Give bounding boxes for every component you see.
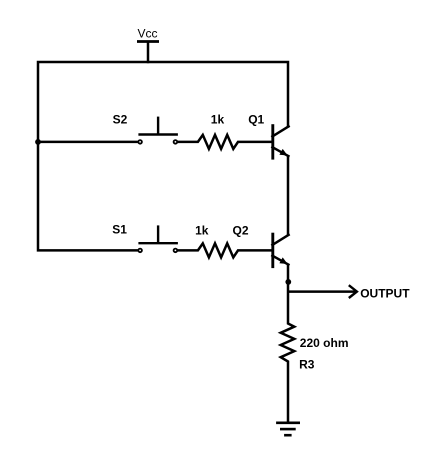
svg-text:S2: S2: [113, 113, 128, 127]
wire output horizontal: [288, 290, 356, 293]
wire S2 to R, resistor 1k (top), wire to Q1 base: [177, 135, 272, 149]
svg-text:1k: 1k: [195, 223, 209, 237]
svg-text:S1: S1: [112, 223, 127, 237]
transistor Q2: [272, 233, 288, 268]
svg-text:Q2: Q2: [233, 223, 249, 237]
svg-text:Vcc: Vcc: [138, 27, 158, 41]
svg-text:OUTPUT: OUTPUT: [360, 287, 410, 301]
wire S2 left: [38, 141, 138, 144]
switch S2: [138, 117, 178, 144]
transistor Q1: [272, 124, 288, 159]
svg-text:Q1: Q1: [248, 113, 264, 127]
node junction dot output: [285, 279, 291, 285]
svg-text:1k: 1k: [211, 113, 225, 127]
svg-text:R3: R3: [299, 357, 315, 371]
ground: [276, 423, 300, 435]
wire Q2 emitter down, resistor R3, wire to ground: [281, 264, 295, 423]
wire main loop: S1 run, left vertical, top rail, Q1 collector drop: [38, 62, 288, 250]
power symbol Vcc: [137, 41, 159, 64]
switch S1: [138, 225, 178, 252]
node junction dot left: [35, 139, 41, 145]
wire S1 to R, resistor 1k (bottom), wire to Q2 base: [177, 243, 272, 257]
svg-text:220 ohm: 220 ohm: [300, 336, 349, 350]
arrow output: [349, 285, 357, 298]
wire Q1 emitter to Q2 collector: [287, 155, 290, 235]
